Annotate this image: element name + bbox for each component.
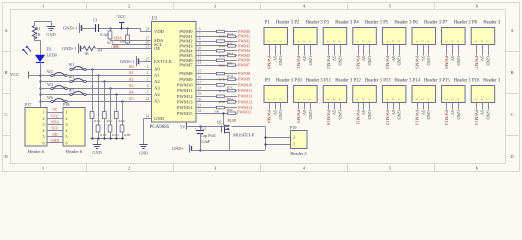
net label PWM1 (238, 34, 250, 39)
wire P5 pin 2 (391, 45, 396, 63)
U1 pin 25 EXTCLK (144, 57, 173, 64)
svg-text:18: 18 (198, 87, 202, 91)
wire P8 pin 3 (485, 45, 490, 67)
svg-text:Header 3: Header 3 (276, 78, 294, 83)
svg-text:P2: P2 (294, 20, 300, 25)
power port 5V (180, 123, 230, 130)
resistor R6A series PWM4 (204, 49, 238, 55)
svg-text:2: 2 (391, 98, 395, 100)
svg-text:PWM7: PWM7 (238, 63, 250, 68)
svg-text:A4: A4 (129, 90, 135, 95)
resistor R1C (102, 112, 113, 139)
U1 pin 7 PWM1 (179, 32, 203, 39)
svg-text:EXTCLK: EXTCLK (154, 59, 173, 64)
U1 pin 10 PWM4 (179, 47, 203, 54)
svg-text:3: 3 (338, 40, 342, 42)
svg-text:5V: 5V (391, 110, 396, 116)
wire to P19 pin 2 (264, 136, 290, 138)
svg-text:Header 3: Header 3 (394, 78, 412, 83)
wire P12 pin 1 (355, 103, 360, 125)
wire C1 to VDD pin 28 (99, 27, 144, 31)
svg-text:GND: GND (426, 110, 431, 120)
wire P17-P18 GND (47, 138, 63, 143)
svg-text:2: 2 (43, 116, 45, 121)
svg-text:R1B: R1B (100, 133, 107, 137)
ground U1 (139, 145, 148, 156)
svg-text:5V: 5V (180, 124, 186, 129)
ground top-left (46, 27, 55, 37)
svg-text:PWM11: PWM11 (177, 88, 193, 93)
svg-text:1: 1 (43, 110, 45, 115)
wire net A1 row (40, 75, 152, 77)
connector P11 Header 3 (323, 78, 353, 102)
svg-text:330: 330 (214, 109, 219, 113)
svg-text:PWM1: PWM1 (296, 56, 301, 69)
U1 pin 3 A2 (144, 78, 161, 85)
svg-text:P9: P9 (265, 78, 271, 83)
sheet border frame (3, 3, 520, 172)
svg-text:1: 1 (267, 98, 271, 100)
svg-text:A3: A3 (129, 83, 134, 88)
svg-text:P15: P15 (442, 78, 450, 83)
svg-text:PWM10: PWM10 (177, 83, 193, 88)
wire A4 to pulldown (115, 93, 117, 111)
wire LED to VCC bus (40, 62, 42, 75)
svg-text:6: 6 (199, 28, 201, 32)
svg-text:R5D: R5D (219, 44, 226, 48)
svg-text:PWM5: PWM5 (415, 56, 420, 70)
svg-text:GND: GND (456, 56, 461, 66)
connector P9 Header 3 (264, 78, 294, 102)
net label PWM11 (238, 88, 252, 93)
wire P14 pin 2 (420, 103, 425, 117)
wire A2 to pulldown (103, 80, 105, 111)
wire P12 pin 2 (361, 103, 366, 117)
svg-text:28: 28 (146, 28, 150, 32)
resistor R7D series PWM11 (204, 89, 238, 93)
svg-text:PWM0: PWM0 (267, 56, 272, 70)
svg-text:5V: 5V (361, 56, 366, 62)
wire P11 pin 2 (332, 103, 337, 117)
svg-text:19: 19 (198, 92, 202, 96)
connector P13 Header 3 (382, 78, 412, 102)
capacitor C2 Cap Pol1 2.2uF (195, 126, 216, 151)
U1 pin 22 PWM15 (177, 109, 204, 116)
svg-text:Q1: Q1 (217, 119, 222, 124)
svg-text:23: 23 (146, 45, 150, 49)
transistor Q1 MOSFET-P (217, 119, 255, 137)
svg-text:1: 1 (415, 40, 419, 42)
svg-text:W5: W5 (69, 88, 75, 93)
svg-text:PWM15: PWM15 (177, 111, 193, 116)
resistor R2B (120, 125, 131, 139)
svg-text:PWM12: PWM12 (177, 94, 193, 99)
svg-text:A4: A4 (154, 92, 160, 97)
connector P4 Header 3 (353, 20, 383, 44)
svg-text:5V: 5V (480, 110, 485, 116)
svg-text:2: 2 (147, 71, 149, 75)
svg-text:PWM10: PWM10 (326, 110, 331, 126)
wire P15 pin 1 (444, 103, 449, 126)
wire MOSFET output loop (200, 127, 266, 151)
svg-text:R7C: R7C (227, 86, 234, 90)
svg-text:Header 3: Header 3 (424, 78, 442, 83)
svg-text:Header 3: Header 3 (306, 78, 324, 83)
svg-text:PWM13: PWM13 (177, 100, 193, 105)
svg-text:Header 6: Header 6 (66, 149, 83, 154)
U1 pin 16 PWM9 (179, 75, 203, 82)
svg-text:R10D: R10D (228, 119, 237, 123)
wire net A3 row (40, 88, 152, 90)
svg-text:GND+1: GND+1 (120, 59, 134, 64)
svg-text:W6: W6 (47, 95, 53, 100)
svg-text:GND: GND (367, 110, 372, 120)
wire P9 pin 2 (272, 103, 277, 117)
svg-text:R7B: R7B (219, 78, 226, 82)
wire R1 bottom to LED D1 (34, 37, 41, 55)
svg-text:R7D: R7D (219, 89, 226, 93)
resistor R8C series PWM14 (204, 106, 238, 112)
wire P13 pin 1 (385, 103, 390, 126)
svg-text:2: 2 (302, 98, 306, 100)
net label PWM14 (238, 105, 253, 110)
U1 pin 28 VDD (144, 28, 165, 35)
wire P2 pin 2 (302, 45, 307, 63)
svg-text:PWM11: PWM11 (355, 110, 360, 125)
net label PWM3 (238, 43, 250, 48)
svg-text:VCC: VCC (51, 113, 60, 118)
svg-text:PWM9: PWM9 (296, 110, 301, 124)
svg-text:GND: GND (485, 110, 490, 120)
svg-text:PWM12: PWM12 (385, 110, 390, 125)
resistor R5D series PWM3 (204, 44, 238, 48)
svg-text:R2B: R2B (124, 133, 131, 137)
svg-text:Header 3: Header 3 (335, 20, 353, 25)
svg-text:3: 3 (486, 98, 490, 100)
svg-text:1: 1 (415, 98, 419, 100)
svg-text:Header 3: Header 3 (365, 20, 383, 25)
svg-text:5V: 5V (53, 107, 58, 112)
svg-text:PWM9: PWM9 (179, 77, 193, 82)
svg-text:3: 3 (397, 40, 401, 42)
svg-text:PWM11: PWM11 (238, 88, 252, 93)
svg-text:2.2uF: 2.2uF (201, 139, 211, 144)
svg-text:U1: U1 (152, 17, 158, 22)
svg-text:Header 2: Header 2 (290, 151, 306, 156)
power port GND+1 upper (63, 23, 96, 33)
wire net SCL (107, 40, 152, 49)
resistor R7B series PWM9 (204, 78, 238, 82)
svg-text:OE: OE (114, 44, 120, 49)
svg-text:2: 2 (480, 98, 484, 100)
wire P11 pin 3 (337, 103, 342, 121)
svg-text:GND: GND (397, 56, 402, 66)
svg-text:2: 2 (362, 40, 366, 42)
ground pulldown network (92, 145, 101, 156)
svg-text:GND: GND (456, 110, 461, 120)
svg-text:1: 1 (267, 40, 271, 42)
svg-text:C1: C1 (93, 18, 98, 23)
svg-text:1: 1 (445, 40, 449, 42)
svg-text:P4: P4 (354, 20, 360, 25)
svg-text:P16: P16 (472, 78, 480, 83)
svg-text:D1: D1 (47, 47, 52, 52)
svg-text:2: 2 (450, 40, 454, 42)
net label PWM6 (238, 58, 250, 63)
svg-text:1: 1 (356, 98, 360, 100)
svg-text:5V: 5V (332, 110, 337, 116)
U1 pin 14 GND (144, 115, 165, 122)
svg-text:W1: W1 (69, 62, 75, 67)
svg-text:PWM8: PWM8 (267, 110, 272, 124)
svg-text:PWM15: PWM15 (474, 110, 479, 126)
wire P17-P18 SCL (47, 126, 63, 131)
jumper W1 (69, 62, 87, 71)
capacitor C1 0.1uF (93, 18, 110, 38)
svg-text:A0: A0 (129, 64, 134, 69)
U1 pin 20 PWM13 (177, 98, 204, 105)
wire net SDA (110, 35, 152, 43)
svg-text:P14: P14 (413, 78, 421, 83)
svg-text:11: 11 (198, 52, 202, 56)
net label PWM8 (238, 71, 250, 76)
svg-text:GND: GND (485, 56, 490, 66)
svg-text:GND+1: GND+1 (62, 46, 76, 51)
svg-text:GND: GND (367, 56, 372, 66)
power port VCC top (117, 14, 126, 28)
svg-text:OE: OE (154, 46, 160, 51)
U1 pin 15 PWM8 (179, 70, 203, 77)
wire P12 pin 3 (367, 103, 372, 121)
svg-text:24: 24 (146, 97, 150, 101)
svg-text:PWM14: PWM14 (177, 105, 193, 110)
svg-text:PWM15: PWM15 (237, 110, 251, 115)
svg-text:Header 3: Header 3 (276, 20, 294, 25)
svg-text:5V: 5V (420, 110, 425, 116)
svg-text:5V: 5V (302, 56, 307, 62)
svg-text:P7: P7 (442, 20, 448, 25)
wire P4 pin 2 (361, 45, 366, 63)
svg-text:2: 2 (293, 134, 295, 139)
svg-text:10K: 10K (120, 39, 126, 43)
LED D1 LED0 (22, 46, 56, 63)
svg-text:Header 3: Header 3 (454, 78, 472, 83)
svg-text:3: 3 (427, 98, 431, 100)
wire P6 pin 1 (415, 45, 420, 70)
svg-text:GND: GND (278, 110, 283, 120)
svg-text:2: 2 (302, 40, 306, 42)
op-amp U1 PCA9685 IC body (150, 17, 197, 130)
svg-text:W2: W2 (47, 69, 53, 74)
svg-text:1: 1 (356, 40, 360, 42)
wire P4 pin 3 (367, 45, 372, 67)
svg-text:3: 3 (486, 40, 490, 42)
connector P14 Header 3 (412, 78, 442, 102)
net label PWM0 (238, 29, 250, 34)
wire P3 pin 3 (337, 45, 342, 67)
net label PWM12 (238, 94, 252, 99)
svg-text:4: 4 (147, 84, 149, 88)
svg-text:GND: GND (426, 56, 431, 66)
resistor R1D (108, 125, 119, 139)
svg-text:1K: 1K (36, 32, 41, 37)
svg-text:PWM6: PWM6 (444, 56, 449, 70)
wire pulldown common rail (90, 137, 124, 144)
power port GND+ bottom (172, 145, 202, 153)
svg-text:GND+: GND+ (172, 146, 184, 151)
svg-text:R1C: R1C (107, 119, 114, 123)
U1 pin 13 PWM7 (179, 61, 203, 68)
svg-text:2: 2 (273, 40, 277, 42)
net label PWM9 (238, 77, 250, 82)
svg-text:PWM4: PWM4 (385, 56, 390, 70)
wire P14 pin 3 (426, 103, 431, 121)
svg-text:5V: 5V (420, 56, 425, 62)
svg-text:GND: GND (397, 110, 402, 120)
svg-text:3: 3 (279, 98, 283, 100)
U1 pin 1 A0 (144, 65, 161, 72)
svg-text:SDA: SDA (51, 120, 59, 125)
svg-text:R2A: R2A (118, 119, 125, 123)
wire P10 pin 3 (308, 103, 313, 121)
resistor R1A (90, 112, 101, 139)
wire P8 pin 2 (480, 45, 485, 63)
svg-text:2: 2 (480, 40, 484, 42)
resistor R4 1K zigzag (83, 46, 102, 56)
svg-text:PWM13: PWM13 (238, 99, 252, 104)
resistor R3 pullup SCL (126, 28, 130, 45)
svg-text:GND: GND (337, 110, 342, 120)
resistor R6B series PWM5 (204, 54, 238, 58)
svg-text:2: 2 (273, 98, 277, 100)
svg-text:5V: 5V (361, 110, 366, 116)
svg-text:1: 1 (474, 98, 478, 100)
U1 pin 12 PWM6 (179, 56, 203, 63)
svg-text:P8: P8 (472, 20, 478, 25)
resistor R1 1K (32, 26, 40, 39)
wire R1 top to GND (34, 22, 52, 27)
wire PWM15 to Q1 gate (222, 112, 224, 125)
U1 pin 21 PWM14 (177, 104, 204, 111)
wire P15 pin 2 (450, 103, 455, 117)
U1 pin 8 PWM2 (179, 37, 203, 44)
svg-text:A1: A1 (129, 70, 134, 75)
svg-text:R8A: R8A (227, 97, 234, 101)
wire P2 pin 1 (296, 45, 301, 69)
svg-text:B: B (4, 70, 7, 75)
net label PWM5 (238, 53, 250, 58)
U1 pin 2 A1 (144, 71, 161, 78)
wire A1 to pulldown (97, 74, 99, 125)
svg-text:13: 13 (198, 61, 202, 65)
wire to P19 pin 1 (264, 143, 290, 145)
svg-text:1: 1 (474, 40, 478, 42)
svg-text:2: 2 (421, 40, 425, 42)
svg-text:PWM9: PWM9 (238, 77, 250, 82)
svg-text:4: 4 (43, 128, 45, 133)
svg-text:Header 3: Header 3 (424, 20, 442, 25)
U1 pin 26 SCL (144, 41, 163, 48)
net label A4 (129, 90, 135, 95)
wire net OE (97, 44, 152, 49)
U1 pin 11 PWM5 (179, 52, 203, 59)
U1 pin 9 PWM3 (179, 42, 203, 49)
svg-text:3: 3 (66, 122, 68, 127)
connector P6 Header 3 (412, 20, 442, 44)
svg-text:5V: 5V (332, 56, 337, 62)
resistor R7A series PWM8 (204, 72, 238, 78)
svg-text:A5: A5 (154, 99, 160, 104)
net label A1 (129, 70, 134, 75)
jumper W4 (47, 82, 67, 90)
wire P7 pin 1 (444, 45, 449, 70)
connector P7 Header 3 (442, 20, 472, 44)
svg-text:Header 3: Header 3 (365, 78, 383, 83)
wire net A0 row (71, 69, 152, 71)
svg-text:GND: GND (51, 138, 60, 143)
svg-text:PCA9685: PCA9685 (150, 125, 170, 130)
connector P19 Header 2 (290, 125, 307, 156)
svg-text:2: 2 (362, 98, 366, 100)
svg-text:P1: P1 (265, 20, 271, 25)
wire net A5 row (40, 101, 152, 103)
svg-text:1: 1 (297, 98, 301, 100)
jumper W5 (69, 88, 87, 96)
svg-text:Header 3: Header 3 (306, 20, 324, 25)
svg-text:C: C (510, 112, 513, 117)
svg-text:GND: GND (92, 150, 101, 155)
svg-text:R7A: R7A (227, 74, 234, 78)
svg-text:W4: W4 (47, 82, 53, 87)
resistor R8A series PWM12 (204, 95, 238, 101)
svg-text:6: 6 (66, 140, 68, 145)
svg-text:VCC: VCC (10, 72, 19, 77)
wire P17-P18 5V (47, 107, 63, 112)
jumper W3 (69, 75, 87, 83)
svg-text:5V: 5V (302, 110, 307, 116)
svg-text:P11: P11 (324, 78, 332, 83)
svg-text:A5: A5 (129, 96, 134, 101)
svg-text:5: 5 (43, 134, 45, 139)
svg-text:3: 3 (367, 40, 371, 42)
svg-text:MOSFET-P: MOSFET-P (233, 132, 255, 137)
wire P3 pin 1 (326, 45, 331, 69)
svg-text:3: 3 (427, 40, 431, 42)
net label PWM15 (237, 110, 251, 115)
svg-text:Header 3: Header 3 (483, 20, 501, 25)
U1 pin 27 SDA (144, 37, 164, 44)
svg-text:1: 1 (293, 142, 295, 147)
svg-text:C2: C2 (202, 126, 207, 131)
wire U1 GND pin to ground (143, 119, 145, 145)
net label A5 (129, 96, 134, 101)
connector P3 Header 3 (323, 20, 353, 44)
svg-text:1: 1 (326, 40, 330, 42)
resistor R8B series PWM13 (204, 100, 238, 104)
connector P5 Header 3 (382, 20, 412, 44)
wire P13 pin 3 (397, 103, 402, 121)
svg-text:P13: P13 (383, 78, 391, 83)
svg-text:GND: GND (308, 110, 313, 120)
svg-text:5V: 5V (272, 56, 277, 62)
net label PWM10 (238, 82, 252, 87)
U1 pin 5 A4 (144, 91, 161, 98)
svg-text:5V: 5V (272, 110, 277, 116)
wire P5 pin 1 (385, 45, 390, 70)
wire A0 to pulldown (91, 68, 93, 111)
svg-text:C: C (4, 112, 7, 117)
svg-text:P12: P12 (354, 78, 362, 83)
